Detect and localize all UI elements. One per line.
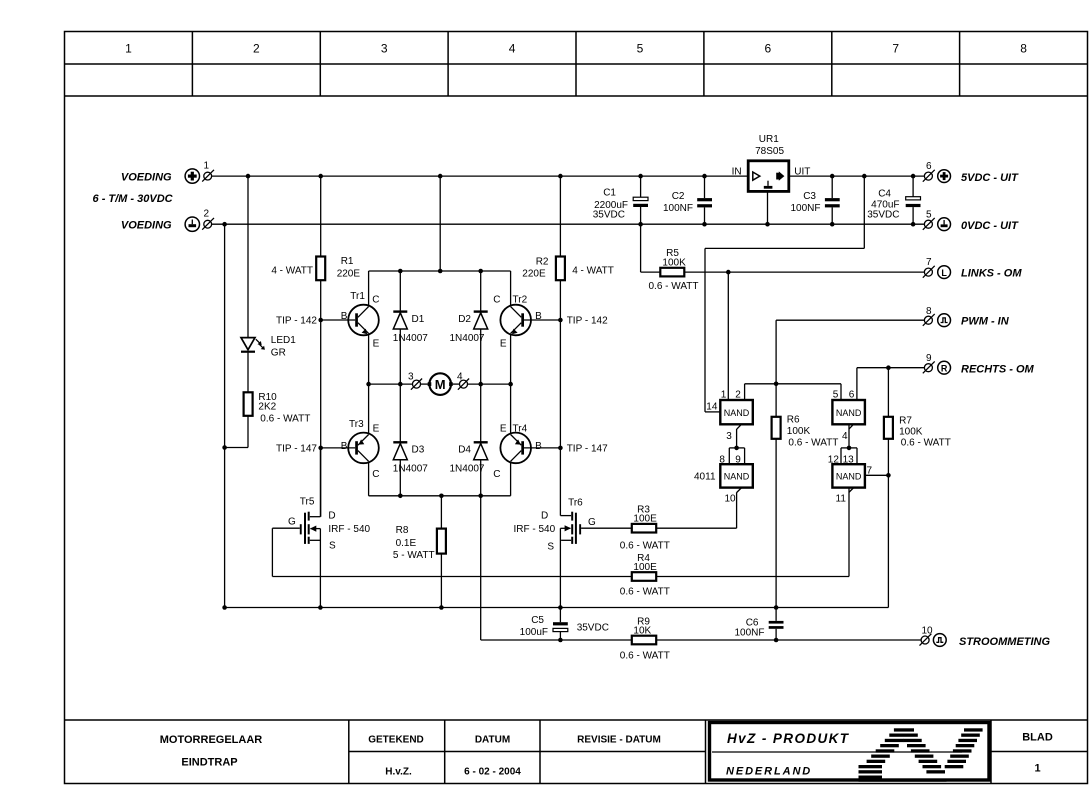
wire bridge top rail (369, 270, 511, 272)
svg-text:3: 3 (726, 431, 732, 442)
svg-text:35VDC: 35VDC (867, 210, 899, 221)
svg-text:C3: C3 (803, 191, 816, 202)
svg-text:NAND: NAND (724, 472, 750, 482)
transistor Tr1 TIP-142 (341, 271, 380, 384)
transistor Tr6 IRF-540 (514, 497, 632, 607)
svg-text:LED1: LED1 (271, 335, 296, 346)
resistor R7 (884, 368, 951, 608)
wire 5V output rail (790, 175, 925, 177)
svg-text:1: 1 (721, 390, 727, 401)
wire UR1 ground pin (767, 191, 769, 224)
wire D4 column to current sense row (480, 496, 482, 640)
svg-text:100NF: 100NF (663, 203, 693, 214)
svg-text:4: 4 (842, 431, 848, 442)
svg-text:11: 11 (836, 494, 847, 505)
svg-text:D3: D3 (412, 445, 425, 456)
wire NAND2 output to pins 12-13 (841, 425, 857, 465)
NAND gate U1A (706, 390, 753, 442)
svg-text:C4: C4 (878, 189, 891, 200)
resistor R1 (271, 176, 360, 280)
junctions bridge bottom rail (398, 494, 483, 499)
svg-text:C5: C5 (531, 615, 544, 626)
svg-text:M: M (435, 377, 446, 392)
svg-text:0.6 - WATT: 0.6 - WATT (788, 438, 838, 449)
svg-text:100NF: 100NF (734, 628, 764, 639)
svg-text:TIP - 142: TIP - 142 (276, 316, 317, 327)
wire current sense row 640 (481, 639, 921, 641)
terminal 10 STROOMMETING (920, 626, 1051, 649)
svg-text:HvZ - PRODUKT: HvZ - PRODUKT (727, 731, 850, 746)
svg-text:220E: 220E (337, 269, 361, 280)
svg-text:8: 8 (926, 306, 932, 317)
svg-text:H.v.Z.: H.v.Z. (385, 767, 412, 778)
svg-text:S: S (329, 541, 336, 552)
transistor Tr3 TIP-147 (341, 384, 380, 496)
svg-text:STROOMMETING: STROOMMETING (959, 636, 1050, 648)
NAND gate U1B (832, 390, 865, 442)
diode D2 1N4007 (449, 271, 487, 384)
svg-text:0.6 - WATT: 0.6 - WATT (620, 587, 670, 598)
capacitor C5 (520, 608, 609, 641)
svg-text:D: D (541, 511, 548, 522)
wire bridge bottom rail (369, 495, 511, 497)
svg-text:R2: R2 (536, 257, 549, 268)
svg-text:RECHTS - OM: RECHTS - OM (961, 364, 1035, 376)
svg-text:14: 14 (706, 402, 718, 413)
junctions bridge top rail (398, 269, 483, 274)
wire NAND pin1 column (727, 272, 729, 400)
svg-text:10: 10 (725, 494, 737, 505)
motor M (428, 373, 453, 395)
resistor R10 (244, 392, 311, 425)
svg-text:R1: R1 (341, 256, 354, 267)
svg-text:4: 4 (509, 42, 516, 56)
svg-text:LINKS - OM: LINKS - OM (961, 268, 1022, 280)
wire R2 to base column (559, 280, 561, 515)
junction R10 to 0V branch (222, 445, 227, 450)
svg-text:UIT: UIT (794, 167, 810, 178)
svg-text:TIP - 142: TIP - 142 (567, 316, 608, 327)
label 6 - T/M - 30VDC (93, 193, 174, 205)
junctions on +V rail (246, 174, 707, 179)
transistor Tr2 TIP-142 (493, 271, 542, 384)
resistor R8 (393, 496, 446, 608)
svg-text:C: C (493, 295, 500, 306)
wire 0V rail (212, 223, 925, 225)
svg-text:100K: 100K (787, 426, 811, 437)
svg-text:1N4007: 1N4007 (393, 333, 428, 344)
svg-text:1N4007: 1N4007 (449, 333, 484, 344)
LED LED1 (241, 335, 296, 359)
svg-text:Tr2: Tr2 (513, 295, 528, 306)
svg-text:IRF - 540: IRF - 540 (514, 524, 556, 535)
svg-text:R7: R7 (899, 416, 912, 427)
svg-text:TIP - 147: TIP - 147 (276, 444, 317, 455)
svg-text:2: 2 (253, 42, 260, 56)
svg-text:NAND: NAND (724, 408, 750, 418)
svg-text:7: 7 (926, 257, 932, 268)
svg-text:4 - WATT: 4 - WATT (572, 266, 614, 277)
svg-text:PWM - IN: PWM - IN (961, 316, 1010, 328)
svg-text:10K: 10K (633, 626, 651, 637)
svg-text:VOEDING: VOEDING (121, 220, 172, 232)
wire 0V branch down left (224, 224, 226, 607)
svg-text:GR: GR (271, 348, 286, 359)
terminal 6 5VDC-UIT (923, 161, 1019, 184)
svg-text:DATUM: DATUM (475, 735, 510, 746)
svg-text:GETEKEND: GETEKEND (368, 735, 424, 746)
svg-text:Tr1: Tr1 (350, 291, 365, 302)
svg-text:NAND: NAND (836, 472, 862, 482)
NAND gate U1D (828, 455, 873, 505)
junctions on 5V output rail (830, 174, 915, 179)
svg-text:7: 7 (892, 42, 899, 56)
junction PWM to feed row (774, 382, 779, 387)
svg-text:C: C (372, 295, 379, 306)
capacitor C3 (790, 176, 839, 224)
svg-text:C: C (372, 469, 379, 480)
svg-text:4: 4 (457, 372, 463, 383)
svg-text:C: C (493, 469, 500, 480)
title block (65, 720, 1088, 784)
junctions row 640 (558, 638, 778, 643)
wire motor row (369, 383, 511, 385)
svg-text:3: 3 (408, 372, 414, 383)
svg-text:6 - 02 - 2004: 6 - 02 - 2004 (464, 767, 521, 778)
svg-text:9: 9 (926, 353, 932, 364)
terminal 7 LINKS-OM (923, 257, 1023, 280)
terminal 5 0VDC-UIT (923, 210, 1019, 233)
terminal 2 VOEDING minus (121, 209, 214, 232)
svg-text:E: E (373, 424, 380, 435)
svg-text:100K: 100K (899, 427, 923, 438)
logo N emblem (859, 728, 983, 781)
terminal 3 motor (408, 372, 422, 390)
NAND gate U1C 4011 (694, 455, 753, 505)
diode D4 1N4007 (449, 384, 487, 496)
wire Tr4 base (524, 444, 608, 455)
capacitor C1 (593, 176, 648, 272)
wire Tr5 gate down (271, 528, 273, 576)
svg-text:G: G (588, 517, 596, 528)
svg-text:0.1E: 0.1E (396, 538, 417, 549)
svg-text:E: E (500, 339, 507, 350)
svg-text:R6: R6 (787, 415, 800, 426)
terminal 9 RECHTS-OM (923, 353, 1035, 376)
svg-text:6: 6 (849, 390, 855, 401)
svg-text:BLAD: BLAD (1022, 732, 1053, 744)
svg-text:1: 1 (1034, 763, 1040, 775)
wire R4 to NAND pin 11 (848, 488, 850, 577)
wire RECHTS row (857, 368, 925, 400)
logo HvZ-PRODUKT box (710, 723, 990, 781)
svg-text:0.6 - WATT: 0.6 - WATT (260, 414, 310, 425)
junction RECHTS to R7 (886, 365, 891, 370)
svg-text:220E: 220E (522, 269, 546, 280)
wire Tr1 base (276, 316, 355, 327)
svg-text:100uF: 100uF (520, 627, 548, 638)
svg-text:5: 5 (637, 42, 644, 56)
regulator UR1 78S05 (732, 134, 811, 191)
svg-text:NAND: NAND (836, 408, 862, 418)
wire bridge feed (439, 176, 441, 271)
svg-text:8: 8 (719, 455, 725, 466)
junction R5 to NAND pin1 (726, 270, 731, 275)
svg-text:6: 6 (764, 42, 771, 56)
svg-text:IN: IN (732, 167, 742, 178)
svg-text:100E: 100E (633, 514, 657, 525)
wire Tr3 base (276, 444, 355, 455)
junctions motor row (366, 382, 513, 387)
svg-text:78S05: 78S05 (755, 146, 784, 157)
wire NAND feed row pins 2-5 (745, 384, 841, 400)
svg-text:D4: D4 (458, 445, 471, 456)
junctions common rail 607 (222, 605, 778, 610)
wire NAND4 pin7 output (865, 473, 891, 478)
svg-text:9: 9 (735, 455, 741, 466)
capacitor C6 (734, 439, 783, 640)
capacitor C2 (663, 176, 712, 224)
svg-text:5 - WATT: 5 - WATT (393, 550, 435, 561)
svg-text:2: 2 (735, 390, 741, 401)
resistor R6 (772, 415, 839, 449)
svg-text:D2: D2 (458, 314, 471, 325)
svg-text:Tr5: Tr5 (300, 497, 315, 508)
wire Tr2 base (524, 316, 608, 327)
svg-text:Tr6: Tr6 (568, 497, 583, 508)
svg-text:1N4007: 1N4007 (449, 464, 484, 475)
svg-text:5: 5 (926, 210, 932, 221)
svg-text:VOEDING: VOEDING (121, 172, 172, 184)
svg-text:8: 8 (1020, 42, 1027, 56)
svg-text:B: B (535, 441, 542, 452)
svg-text:0.6 - WATT: 0.6 - WATT (620, 541, 670, 552)
svg-text:5: 5 (833, 390, 839, 401)
svg-text:C1: C1 (603, 188, 616, 199)
svg-text:10: 10 (922, 626, 934, 637)
svg-text:B: B (341, 441, 348, 452)
svg-text:C2: C2 (672, 191, 685, 202)
svg-text:0.6 - WATT: 0.6 - WATT (901, 438, 951, 449)
resistor R5 (641, 248, 925, 292)
wire +V input rail (212, 175, 749, 177)
wire PWM row (776, 320, 924, 417)
svg-text:35VDC: 35VDC (577, 623, 609, 634)
svg-text:1: 1 (125, 42, 132, 56)
svg-text:MOTORREGELAAR: MOTORREGELAAR (160, 734, 263, 746)
wire LED/R10 branch (225, 176, 248, 447)
transistor Tr5 IRF-540 (272, 448, 370, 608)
svg-text:3: 3 (381, 42, 388, 56)
svg-text:6 - T/M - 30VDC: 6 - T/M - 30VDC (93, 193, 174, 205)
resistor R2 (522, 176, 614, 280)
wire 5V feed to logic (705, 176, 864, 412)
svg-text:Tr4: Tr4 (513, 424, 528, 435)
diode D3 1N4007 (393, 384, 428, 496)
svg-text:6: 6 (926, 161, 932, 172)
svg-text:0.6 - WATT: 0.6 - WATT (649, 281, 699, 292)
svg-text:E: E (373, 339, 380, 350)
terminal 4 motor (457, 372, 469, 390)
svg-text:0VDC - UIT: 0VDC - UIT (961, 220, 1019, 232)
wire R3 to NAND pin 10 (736, 492, 738, 528)
svg-text:EINDTRAP: EINDTRAP (181, 757, 237, 769)
svg-text:G: G (288, 517, 296, 528)
svg-text:0.6 - WATT: 0.6 - WATT (620, 651, 670, 662)
svg-text:4011: 4011 (694, 472, 716, 483)
svg-text:13: 13 (843, 455, 855, 466)
svg-text:100E: 100E (633, 562, 657, 573)
svg-text:2K2: 2K2 (258, 402, 276, 413)
transistor Tr4 TIP-147 (493, 384, 542, 496)
resistor R3 (620, 505, 737, 552)
terminal 1 VOEDING plus (121, 161, 214, 184)
wire common rail 607 (225, 607, 889, 609)
svg-text:IRF - 540: IRF - 540 (328, 524, 370, 535)
svg-text:35VDC: 35VDC (593, 210, 625, 221)
svg-text:D: D (328, 510, 335, 521)
svg-text:2: 2 (204, 209, 210, 220)
svg-text:R: R (941, 363, 948, 373)
svg-text:L: L (941, 268, 947, 278)
svg-text:D1: D1 (412, 314, 425, 325)
svg-text:100NF: 100NF (790, 203, 820, 214)
svg-text:REVISIE - DATUM: REVISIE - DATUM (577, 735, 661, 746)
svg-text:12: 12 (828, 455, 840, 466)
resistor R9 (620, 617, 670, 662)
wire NAND1 output to pins 8-9 (729, 429, 744, 464)
svg-text:NEDERLAND: NEDERLAND (726, 766, 812, 778)
resistor R4 (272, 553, 849, 598)
capacitor C4 (867, 176, 920, 224)
svg-text:100K: 100K (662, 258, 686, 269)
svg-text:R8: R8 (396, 525, 409, 536)
svg-text:S: S (547, 541, 554, 552)
svg-text:4 - WATT: 4 - WATT (271, 266, 313, 277)
svg-text:1: 1 (204, 161, 210, 172)
svg-text:5VDC - UIT: 5VDC - UIT (961, 172, 1019, 184)
junctions on 0V rail (222, 222, 915, 227)
diode D1 1N4007 (393, 271, 428, 384)
svg-text:UR1: UR1 (759, 134, 779, 145)
wire R1 to base column (320, 280, 322, 517)
svg-text:E: E (500, 424, 507, 435)
terminal 8 PWM-IN (923, 306, 1010, 328)
svg-text:Tr3: Tr3 (349, 419, 364, 430)
svg-text:TIP - 147: TIP - 147 (567, 444, 608, 455)
svg-text:1N4007: 1N4007 (393, 464, 428, 475)
